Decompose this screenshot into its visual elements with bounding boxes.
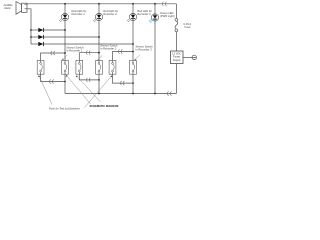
- wire test switch 3 tap: [113, 52, 134, 61]
- leader arrow push test to S5: [85, 75, 113, 107]
- wire test switch 2 tap: [79, 53, 99, 61]
- node dot ch1 bottom join: [64, 81, 66, 83]
- label Audible Alarm: [4, 3, 13, 10]
- node dot diode row3 to LED3: [132, 43, 134, 45]
- node dot top rail LED1: [64, 3, 66, 5]
- svg-text:Recorder 3: Recorder 3: [137, 12, 151, 16]
- node dot ch3 bottom join: [132, 82, 134, 84]
- connector J4: [118, 49, 122, 53]
- svg-text:Alarm: Alarm: [4, 6, 12, 10]
- svg-text:Recorder 1: Recorder 1: [72, 12, 86, 16]
- node dot bus row1: [30, 29, 32, 31]
- wire power supply return: [175, 64, 177, 94]
- label Sensor Switch in Recorder 3: [136, 44, 154, 51]
- wire LED1 branch: [64, 4, 66, 61]
- connector J5: [50, 79, 54, 83]
- switch S3 test 2: [76, 60, 83, 74]
- label Red LED for Recorder 1: [72, 9, 87, 16]
- label Green LED PWR Light: [160, 11, 175, 18]
- node dot bus row2: [30, 36, 32, 38]
- label 0.25 A Fuse: [184, 22, 192, 29]
- switch S2 sensor recorder 1: [62, 60, 69, 74]
- wire test switch 1 bottom join: [41, 74, 65, 81]
- label Sensor Switch in Recorder 2: [100, 43, 118, 50]
- connector J8 on return bus: [167, 91, 171, 95]
- switch S5 test 3: [109, 60, 116, 74]
- wire top supply rail: [27, 3, 176, 5]
- svg-text:Recorder 2: Recorder 2: [103, 12, 117, 16]
- switch S6 sensor recorder 3: [130, 60, 137, 74]
- LED DS3 red: [127, 13, 137, 22]
- wire ch2 to return bus: [98, 74, 100, 93]
- wire ch3 to return bus: [132, 74, 134, 93]
- wire speaker return to diode bus: [27, 9, 31, 44]
- svg-text:SCHEMATIC DIAGRAM: SCHEMATIC DIAGRAM: [90, 104, 120, 108]
- wire LED2 branch: [98, 4, 100, 61]
- diode D3: [31, 42, 133, 46]
- node dot tee ch1: [64, 52, 66, 54]
- label Sensor Switch in Recorder 1: [66, 46, 84, 53]
- node dot top rail LED2: [98, 3, 100, 5]
- node dot bus green LED: [154, 93, 156, 95]
- wire ch1 to return bus: [64, 74, 66, 93]
- svg-text:Supply: Supply: [173, 58, 182, 62]
- wire green LED branch: [154, 4, 156, 94]
- leader arrow push test to S2 sensor: [66, 75, 91, 104]
- speaker LS1 audible alarm: [16, 2, 27, 15]
- connector J7: [120, 81, 124, 85]
- leader arrow sensor label 1: [62, 55, 67, 60]
- diode D1: [31, 28, 65, 32]
- switch S1 test 1: [37, 60, 44, 74]
- wire test switch 3 bottom join: [113, 74, 134, 83]
- svg-text:(PWR Light): (PWR Light): [160, 14, 175, 18]
- wire LED3 branch: [132, 4, 134, 61]
- svg-text:in Recorder 2: in Recorder 2: [100, 46, 117, 50]
- plug P1 wall outlet: [192, 55, 196, 59]
- label Red LED for Recorder 2: [103, 9, 118, 16]
- wire test switch 1 tap: [41, 53, 65, 60]
- leader arrow push test to S3: [76, 75, 101, 102]
- fuse F1 0.25A: [175, 18, 178, 31]
- switch S4 sensor recorder 2: [96, 60, 103, 74]
- wire test switch 2 bottom join: [79, 74, 99, 80]
- connector J1 on top rail: [162, 2, 166, 6]
- leader arrow push test to S1: [38, 75, 52, 104]
- power supply PS1 12VDC: [171, 51, 184, 64]
- node dot top rail LED3: [132, 3, 134, 5]
- node dot bus ch3: [132, 93, 134, 95]
- diode D2: [31, 35, 99, 39]
- node dot diode row1 to LED1: [64, 29, 66, 31]
- LED DS1 red: [59, 13, 69, 22]
- node dot ch2 bottom join: [98, 79, 100, 81]
- svg-text:in Recorder 1: in Recorder 1: [66, 49, 83, 53]
- wire power supply to plug: [183, 56, 192, 58]
- node dot tee ch3: [132, 51, 134, 53]
- LED DS2 red: [93, 13, 103, 22]
- node dot tee ch2: [98, 52, 100, 54]
- wire ground return bus: [65, 93, 176, 95]
- svg-text:Push for Test (on)Switches: Push for Test (on)Switches: [49, 106, 81, 110]
- svg-text:in Recorder 3: in Recorder 3: [136, 47, 153, 51]
- connector J6: [86, 78, 90, 82]
- leader arrow sensor label 3: [134, 55, 139, 61]
- node dot diode row2 to LED2: [98, 36, 100, 38]
- svg-text:Fuse: Fuse: [185, 25, 191, 29]
- leader arrow sensor label 2: [97, 55, 102, 61]
- connector J3: [86, 51, 90, 55]
- node dot top rail green LED: [154, 3, 156, 5]
- LED DS4 green power light: [149, 14, 159, 23]
- node dot bus ch2: [98, 93, 100, 95]
- connector J2: [51, 51, 55, 55]
- wire fuse feed right side: [175, 4, 177, 19]
- wire fuse to power supply: [175, 32, 177, 51]
- label Red LED for Recorder 3: [137, 9, 152, 16]
